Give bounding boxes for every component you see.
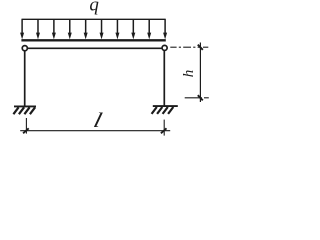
svg-text:q: q [89, 0, 99, 16]
svg-text:h: h [181, 70, 197, 78]
